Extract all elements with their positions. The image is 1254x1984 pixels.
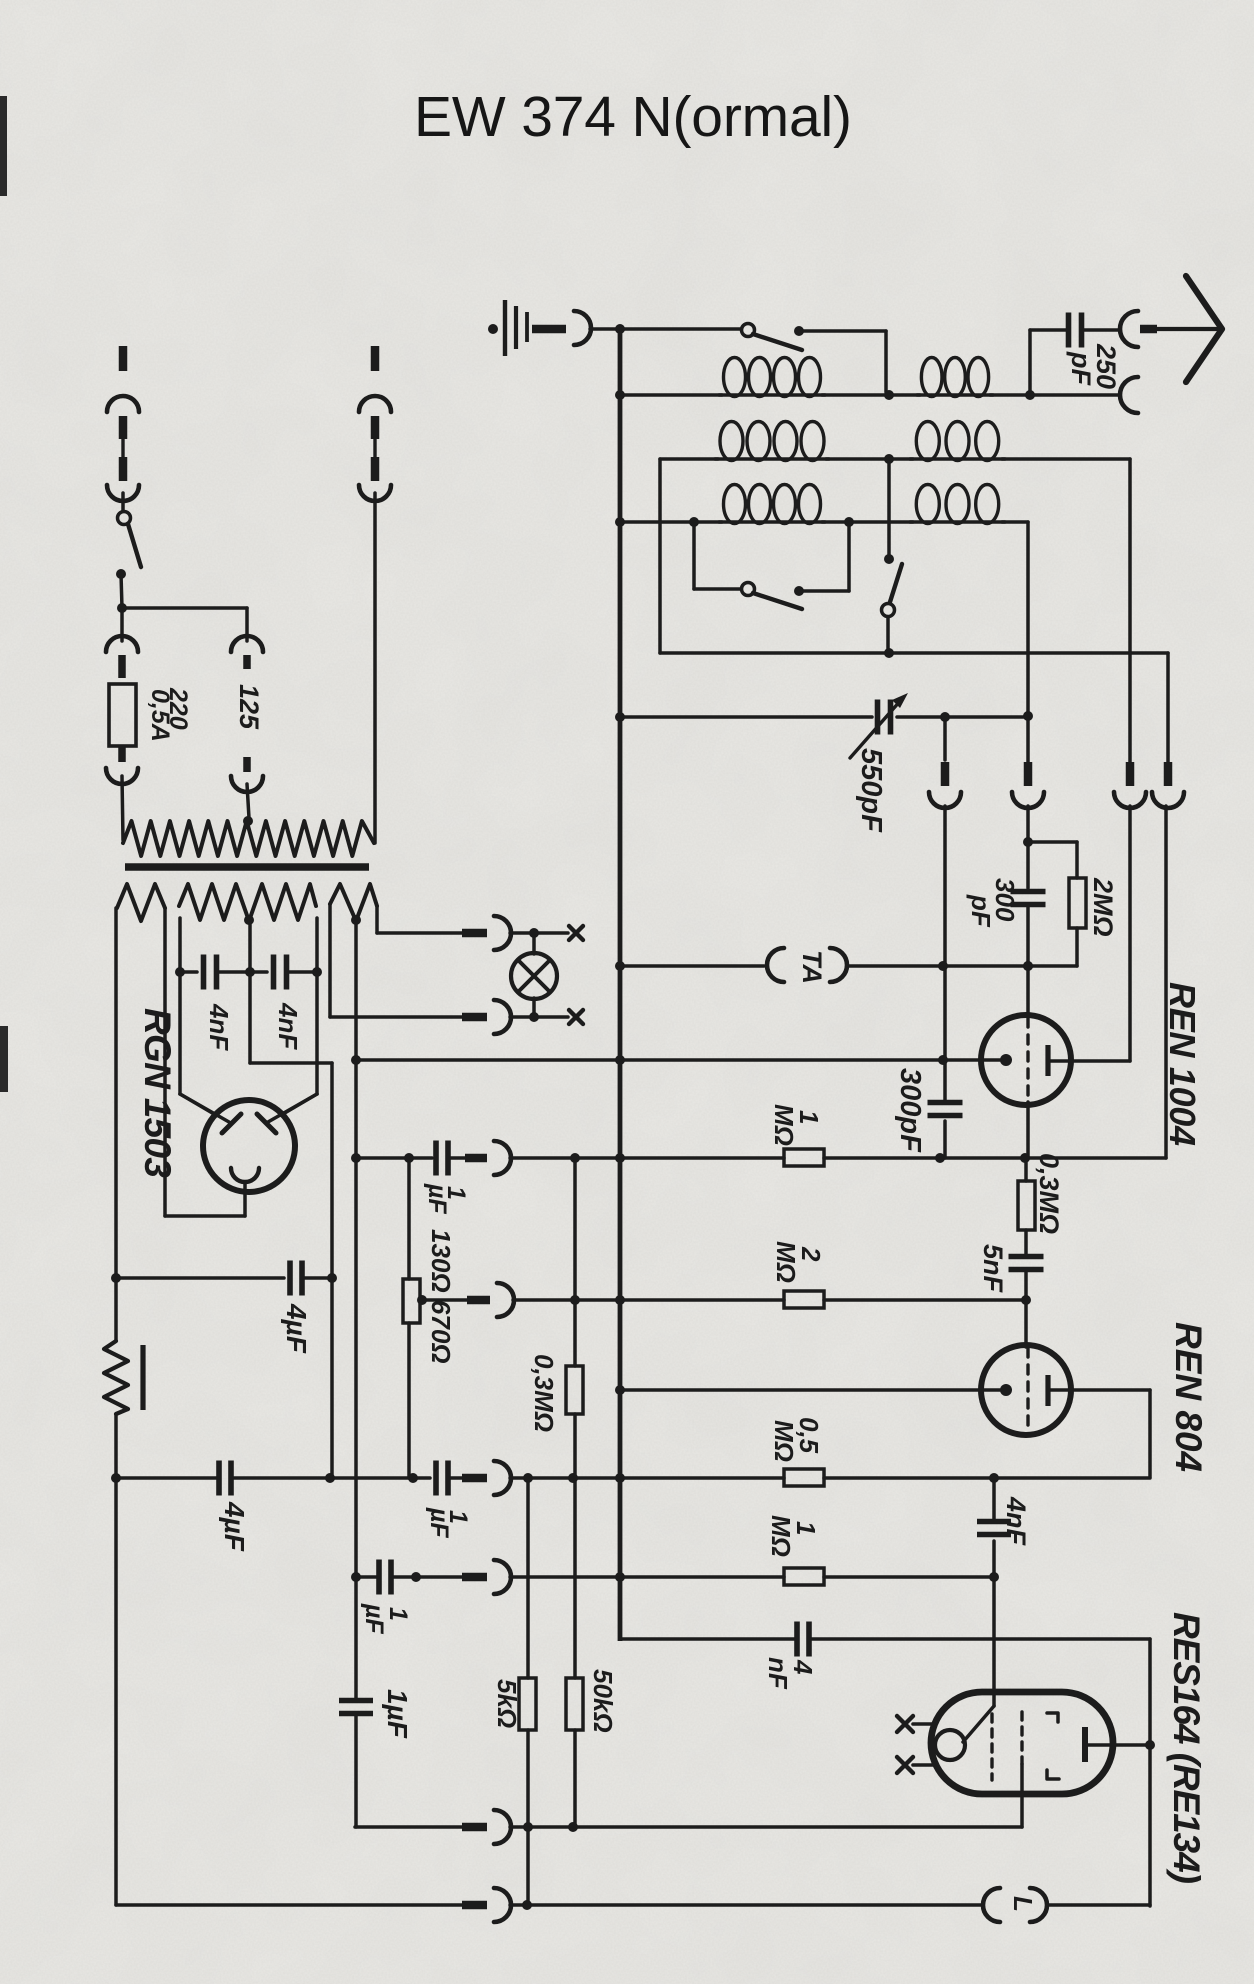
svg-text:µF: µF <box>423 1183 451 1214</box>
svg-text:50kΩ: 50kΩ <box>588 1669 618 1733</box>
wire column v945 <box>943 806 947 966</box>
svg-text:REN 1004: REN 1004 <box>1162 982 1203 1146</box>
wire <box>824 1298 1026 1302</box>
wire <box>411 1572 421 1582</box>
wire rail B 1MΩ line <box>351 1153 361 1163</box>
wire rail F tone <box>620 1637 795 1641</box>
svg-text:4µF: 4µF <box>281 1303 312 1354</box>
wire rail H output <box>116 1903 462 1907</box>
svg-text:300pF: 300pF <box>894 1068 926 1153</box>
wire row C right drop <box>1002 520 1028 524</box>
wire rail D grid2 line <box>417 1295 427 1305</box>
socket fuse top <box>120 608 124 641</box>
resistor 0,5MΩ <box>784 1469 824 1486</box>
wire row B left drop <box>658 459 662 653</box>
wire <box>824 1575 994 1579</box>
socket railB <box>494 1141 511 1175</box>
wire rail Y651 <box>660 651 1168 655</box>
wire TA line <box>615 961 625 971</box>
screen grid RES164 <box>1020 1712 1023 1764</box>
wire rectifier filament return <box>165 1214 245 1218</box>
socket 125 bottom <box>243 757 251 772</box>
wire v116 heater left <box>114 908 118 1341</box>
inductor L3 <box>720 422 743 461</box>
inductor L2 <box>921 358 942 397</box>
svg-text:RGN 1503: RGN 1503 <box>137 1008 178 1178</box>
capacitor 4nF rectifier left <box>180 970 197 974</box>
anode RES164 <box>1082 1727 1088 1762</box>
capacitor 4nF rectifier right <box>250 970 267 974</box>
inductor L6 <box>916 485 939 524</box>
wire <box>121 574 122 608</box>
x heater top <box>569 926 583 940</box>
wire <box>1047 1903 1150 1907</box>
resistor 2MΩ grid leak <box>1028 840 1077 844</box>
svg-text:2MΩ: 2MΩ <box>1088 877 1118 937</box>
capacitor 300pF cathode <box>943 1060 947 1101</box>
socket TA right <box>830 948 847 982</box>
resistor 2MΩ grid <box>784 1291 824 1308</box>
wire <box>114 1414 118 1905</box>
svg-text:5nF: 5nF <box>978 1244 1008 1294</box>
fuse 220 0,5A <box>109 684 136 746</box>
wire anode REN804 <box>1048 1388 1150 1392</box>
capacitor 1µF railE <box>376 1560 382 1595</box>
capacitor 4nF tone <box>794 1622 800 1657</box>
transformer secondary heater2 <box>330 884 377 921</box>
wire <box>448 1156 465 1160</box>
socket railH <box>494 1888 511 1922</box>
socket ground jack <box>574 311 591 345</box>
socket tap2 <box>1024 762 1033 786</box>
svg-text:1µF: 1µF <box>382 1689 413 1739</box>
tube RES164 <box>931 1692 1113 1794</box>
grid RES164 <box>963 1706 994 1742</box>
wire v355 heater mid <box>354 921 358 1699</box>
socket lamp top <box>494 916 511 950</box>
wire lamp top line <box>377 931 462 935</box>
svg-text:0,3MΩ: 0,3MΩ <box>1034 1153 1064 1234</box>
svg-text:MΩ: MΩ <box>769 1104 799 1146</box>
capacitor 4µF <box>216 1461 222 1496</box>
switch mains <box>118 512 131 525</box>
switch S2 coil short <box>692 522 696 589</box>
svg-text:µF: µF <box>360 1603 388 1634</box>
wire v330 jog <box>330 1063 334 1478</box>
socket rail2 <box>494 1461 511 1495</box>
svg-text:4nF: 4nF <box>273 1002 303 1050</box>
resistor 0,3MΩ anode feed <box>1024 1158 1028 1181</box>
svg-text:4nF: 4nF <box>1001 1496 1031 1547</box>
wire rail G screen <box>355 1825 462 1829</box>
capacitor 300pF grid <box>1011 889 1046 895</box>
wire row C <box>615 517 625 527</box>
tube RGN1503 rectifier <box>203 1100 295 1192</box>
antenna <box>1157 327 1220 331</box>
svg-text:MΩ: MΩ <box>769 1420 799 1462</box>
tube REN804 <box>1024 1300 1028 1347</box>
socket tap4 <box>1164 762 1173 786</box>
wire <box>990 393 1030 397</box>
socket L left <box>983 1888 1000 1922</box>
svg-text:TA: TA <box>797 950 827 984</box>
wire cathode line REN1004 <box>615 1055 625 1065</box>
wire rail E <box>351 1572 361 1582</box>
wire <box>570 1295 580 1305</box>
svg-text:µF: µF <box>425 1507 453 1538</box>
switch S1 wave band <box>620 327 741 331</box>
wire row B right <box>1002 457 1130 461</box>
resistor 50kΩ <box>566 1678 583 1730</box>
wire <box>811 1637 1150 1641</box>
capacitor 4µF filter <box>287 1261 293 1296</box>
wire <box>325 1473 335 1483</box>
wire HV left to rectifier <box>178 918 182 971</box>
wire 4µF line <box>111 1273 121 1283</box>
svg-text:125: 125 <box>234 684 264 730</box>
wire rail Y717 <box>615 712 625 722</box>
wire 125V tap branch <box>122 606 247 610</box>
svg-text:pF: pF <box>1066 351 1096 386</box>
socket railE <box>494 1560 511 1594</box>
wire cathode line REN804 <box>615 1385 625 1395</box>
svg-text:pF: pF <box>966 894 996 928</box>
transformer secondary heater1 <box>117 884 165 921</box>
filament RES164 <box>935 1730 965 1760</box>
wire <box>884 390 894 400</box>
wire <box>615 1572 625 1582</box>
switch S3 <box>887 459 891 554</box>
transformer secondary HV <box>179 884 316 921</box>
wire <box>884 454 894 464</box>
capacitor 1µF bottom <box>339 1698 373 1704</box>
svg-text:L: L <box>1008 1896 1038 1912</box>
wire <box>523 1473 533 1483</box>
scan artifact <box>0 96 7 196</box>
transformer primary <box>123 821 374 856</box>
resistor 5kΩ <box>519 1678 536 1730</box>
wire anode REN1004 <box>1048 1059 1130 1063</box>
socket tap3 <box>1126 762 1135 786</box>
socket antenna A1 <box>1120 311 1138 347</box>
capacitor 1µF <box>433 1461 439 1496</box>
socket mains right <box>371 346 380 371</box>
socket antenna A2 <box>1120 377 1138 413</box>
transformer core <box>125 863 369 871</box>
svg-text:MΩ: MΩ <box>766 1515 796 1557</box>
wire <box>448 1476 462 1480</box>
wire v409 bias <box>407 1158 411 1279</box>
socket 125 top <box>231 636 263 652</box>
svg-text:REN 804: REN 804 <box>1168 1322 1209 1472</box>
svg-text:MΩ: MΩ <box>771 1241 801 1283</box>
resistor 130Ω 670Ω <box>403 1279 420 1323</box>
wire <box>523 1822 533 1832</box>
wire <box>522 1900 532 1910</box>
x heater bottom <box>569 1010 583 1024</box>
resistor 1MΩ grid RES164 <box>784 1568 824 1585</box>
wire grid column v1028 <box>1026 806 1030 842</box>
socket mains left <box>119 346 128 371</box>
wire v575 <box>573 1158 577 1366</box>
svg-text:0,3MΩ: 0,3MΩ <box>529 1354 559 1432</box>
potentiometer hum <box>104 1341 128 1414</box>
wire lamp bottom line <box>330 1015 462 1019</box>
wire <box>989 1473 999 1483</box>
wire heater2 ends to lamp <box>328 904 332 1017</box>
wire row A antenna coil line <box>615 390 625 400</box>
wire HV center tap <box>248 921 252 971</box>
wire ground to bus <box>590 327 620 331</box>
capacitor 5nF <box>1024 1230 1028 1254</box>
capacitor 1µF railB <box>433 1141 439 1176</box>
svg-text:130Ω 670Ω: 130Ω 670Ω <box>426 1229 456 1364</box>
wire <box>373 493 377 843</box>
wire <box>689 517 699 527</box>
wire rail 2 HT <box>111 1473 121 1483</box>
capacitor 550pF variable <box>875 700 881 735</box>
capacitor 4nF coupling <box>992 1478 996 1519</box>
svg-text:5kΩ: 5kΩ <box>492 1679 522 1728</box>
socket tap1 <box>943 717 947 760</box>
svg-text:nF: nF <box>763 1657 793 1690</box>
resistor 0,3MΩ <box>566 1366 583 1414</box>
lamp dial <box>532 933 536 954</box>
wire HV right to rectifier <box>315 918 319 971</box>
svg-text:550pF: 550pF <box>855 748 887 833</box>
socket L right <box>1030 1888 1047 1922</box>
wire row B <box>660 457 718 461</box>
socket fuse bottom <box>118 746 126 762</box>
resistor 1MΩ <box>784 1149 824 1166</box>
socket railG <box>494 1810 511 1844</box>
wire <box>1026 906 1030 966</box>
tube REN1004 <box>981 1015 1071 1105</box>
socket rail D <box>497 1283 514 1317</box>
wire bus vertical <box>618 327 623 1641</box>
inductor L1 antenna coil <box>724 358 746 397</box>
wire v528 <box>526 1478 530 1678</box>
svg-text:4µF: 4µF <box>219 1501 250 1552</box>
svg-text:0,5A: 0,5A <box>146 689 174 742</box>
inductor L4 <box>916 422 939 461</box>
socket lamp bottom <box>494 1000 511 1034</box>
svg-text:EW 374 N(ormal): EW 374 N(ormal) <box>414 85 852 149</box>
inductor L5 <box>724 485 746 524</box>
socket TA left <box>767 948 784 982</box>
wire <box>847 964 1077 968</box>
capacitor 250pF antenna <box>1028 330 1032 392</box>
wire <box>935 1153 945 1163</box>
wire <box>510 1156 784 1160</box>
svg-text:4nF: 4nF <box>204 1003 234 1051</box>
svg-text:RES164 (RE134): RES164 (RE134) <box>1166 1612 1207 1884</box>
wire grid exit <box>1026 1102 1030 1158</box>
ground <box>488 324 498 334</box>
